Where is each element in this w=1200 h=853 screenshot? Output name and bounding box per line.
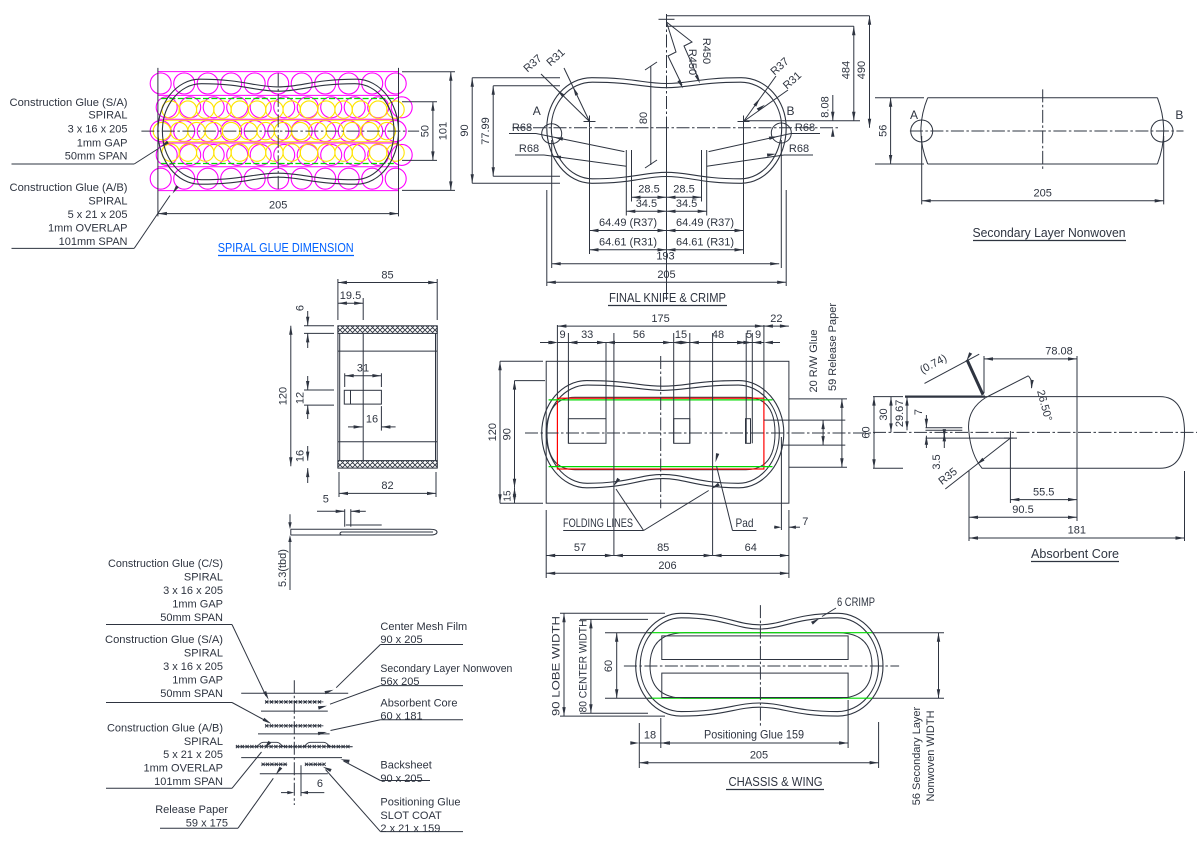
svg-text:R450: R450 bbox=[686, 49, 698, 75]
svg-text:Secondary Layer Nonwoven: Secondary Layer Nonwoven bbox=[380, 663, 512, 675]
svg-text:Nonwoven WIDTH: Nonwoven WIDTH bbox=[925, 710, 937, 801]
svg-text:R68: R68 bbox=[519, 143, 539, 155]
svg-text:Positioning Glue 159: Positioning Glue 159 bbox=[704, 728, 804, 742]
svg-text:57: 57 bbox=[574, 542, 586, 554]
svg-text:9: 9 bbox=[755, 329, 761, 341]
svg-text:6 CRIMP: 6 CRIMP bbox=[837, 595, 875, 609]
svg-text:SPIRAL GLUE DIMENSION: SPIRAL GLUE DIMENSION bbox=[218, 240, 354, 255]
svg-text:205: 205 bbox=[657, 269, 675, 281]
svg-text:193: 193 bbox=[656, 251, 674, 263]
svg-text:3 x 16 x 205: 3 x 16 x 205 bbox=[163, 661, 223, 673]
svg-text:56x 205: 56x 205 bbox=[380, 676, 419, 688]
svg-text:SLOT COAT: SLOT COAT bbox=[380, 810, 442, 822]
svg-text:55.5: 55.5 bbox=[1033, 486, 1054, 498]
svg-text:490: 490 bbox=[856, 61, 868, 79]
svg-text:34.5: 34.5 bbox=[636, 198, 657, 210]
svg-text:64.49 (R37): 64.49 (R37) bbox=[676, 217, 734, 229]
svg-text:6: 6 bbox=[317, 778, 323, 790]
svg-text:SPIRAL: SPIRAL bbox=[184, 736, 223, 748]
svg-text:101mm SPAN: 101mm SPAN bbox=[59, 236, 128, 248]
svg-text:5 x 21 x 205: 5 x 21 x 205 bbox=[68, 209, 128, 221]
svg-text:SPIRAL: SPIRAL bbox=[88, 110, 127, 122]
svg-text:34.5: 34.5 bbox=[676, 198, 697, 210]
svg-text:R68: R68 bbox=[512, 122, 532, 134]
svg-text:101mm SPAN: 101mm SPAN bbox=[154, 776, 223, 788]
svg-text:Absorbent Core: Absorbent Core bbox=[1031, 546, 1119, 561]
svg-text:80: 80 bbox=[638, 112, 650, 124]
svg-text:R68: R68 bbox=[789, 143, 809, 155]
svg-text:50mm SPAN: 50mm SPAN bbox=[160, 688, 223, 700]
svg-text:30: 30 bbox=[878, 408, 890, 420]
svg-text:22: 22 bbox=[770, 313, 782, 325]
svg-text:90 x 205: 90 x 205 bbox=[380, 773, 422, 785]
svg-text:18: 18 bbox=[644, 730, 656, 742]
svg-text:56 Secondary Layer: 56 Secondary Layer bbox=[911, 706, 923, 805]
svg-text:50mm SPAN: 50mm SPAN bbox=[160, 612, 223, 624]
svg-text:5.3(tbd): 5.3(tbd) bbox=[277, 549, 289, 587]
svg-text:101: 101 bbox=[438, 122, 450, 140]
svg-text:SPIRAL: SPIRAL bbox=[184, 648, 223, 660]
svg-text:2 x 21 x 159: 2 x 21 x 159 bbox=[380, 823, 440, 835]
svg-text:6: 6 bbox=[295, 305, 307, 311]
svg-text:60 x 181: 60 x 181 bbox=[380, 711, 422, 723]
svg-text:5: 5 bbox=[323, 494, 329, 506]
svg-text:90: 90 bbox=[459, 124, 471, 136]
svg-text:7: 7 bbox=[913, 409, 925, 415]
svg-text:80 CENTER WIDTH: 80 CENTER WIDTH bbox=[577, 619, 589, 712]
svg-text:28.5: 28.5 bbox=[673, 184, 694, 196]
svg-text:181: 181 bbox=[1068, 525, 1086, 537]
svg-text:206: 206 bbox=[658, 560, 676, 572]
svg-text:64: 64 bbox=[745, 542, 757, 554]
svg-text:56: 56 bbox=[878, 125, 890, 137]
svg-text:Center Mesh Film: Center Mesh Film bbox=[380, 621, 467, 633]
svg-text:Construction Glue (S/A): Construction Glue (S/A) bbox=[105, 634, 223, 646]
svg-text:64.61 (R31): 64.61 (R31) bbox=[676, 236, 734, 248]
svg-text:205: 205 bbox=[750, 749, 768, 761]
svg-text:Construction Glue (A/B): Construction Glue (A/B) bbox=[10, 182, 128, 194]
svg-text:82: 82 bbox=[381, 480, 393, 492]
svg-text:56: 56 bbox=[633, 329, 645, 341]
svg-text:48: 48 bbox=[712, 329, 724, 341]
svg-text:Positioning Glue: Positioning Glue bbox=[380, 797, 460, 809]
svg-text:1mm GAP: 1mm GAP bbox=[77, 138, 128, 150]
svg-text:Absorbent Core: Absorbent Core bbox=[380, 698, 457, 710]
svg-text:50mm SPAN: 50mm SPAN bbox=[65, 151, 128, 163]
svg-text:15: 15 bbox=[502, 490, 513, 502]
svg-text:60: 60 bbox=[603, 660, 615, 672]
svg-text:3 x 16 x 205: 3 x 16 x 205 bbox=[163, 585, 223, 597]
svg-text:B: B bbox=[786, 104, 794, 118]
svg-text:16: 16 bbox=[295, 450, 307, 462]
svg-text:Release Paper: Release Paper bbox=[155, 804, 228, 816]
svg-text:B: B bbox=[1175, 108, 1183, 122]
svg-text:12: 12 bbox=[295, 392, 307, 404]
svg-text:Pad: Pad bbox=[736, 516, 754, 530]
svg-text:5 x 21 x 205: 5 x 21 x 205 bbox=[163, 749, 223, 761]
svg-text:33: 33 bbox=[581, 329, 593, 341]
svg-text:SPIRAL: SPIRAL bbox=[88, 196, 127, 208]
svg-text:16: 16 bbox=[366, 414, 378, 426]
svg-text:90: 90 bbox=[501, 428, 513, 440]
svg-text:1mm OVERLAP: 1mm OVERLAP bbox=[48, 223, 127, 235]
svg-text:64.49 (R37): 64.49 (R37) bbox=[599, 217, 657, 229]
svg-text:8.08: 8.08 bbox=[820, 96, 832, 117]
svg-text:Secondary Layer Nonwoven: Secondary Layer Nonwoven bbox=[973, 225, 1126, 240]
svg-text:59 Release Paper: 59 Release Paper bbox=[827, 303, 839, 391]
svg-text:3.5: 3.5 bbox=[931, 454, 943, 469]
svg-text:1mm GAP: 1mm GAP bbox=[172, 675, 223, 687]
svg-text:77.99: 77.99 bbox=[480, 117, 492, 145]
svg-text:9: 9 bbox=[559, 329, 565, 341]
svg-text:1mm GAP: 1mm GAP bbox=[172, 599, 223, 611]
svg-text:85: 85 bbox=[381, 270, 393, 282]
svg-text:90.5: 90.5 bbox=[1012, 504, 1033, 516]
svg-text:7: 7 bbox=[802, 516, 808, 528]
svg-text:A: A bbox=[910, 108, 918, 122]
svg-text:FINAL KNIFE & CRIMP: FINAL KNIFE & CRIMP bbox=[609, 290, 726, 305]
svg-text:20 R/W Glue: 20 R/W Glue bbox=[808, 330, 820, 393]
svg-text:175: 175 bbox=[651, 313, 669, 325]
svg-text:78.08: 78.08 bbox=[1045, 346, 1073, 358]
svg-text:19.5: 19.5 bbox=[340, 290, 361, 302]
svg-text:SPIRAL: SPIRAL bbox=[184, 572, 223, 584]
svg-text:A: A bbox=[533, 104, 541, 118]
svg-text:CHASSIS & WING: CHASSIS & WING bbox=[729, 774, 823, 789]
svg-text:60: 60 bbox=[861, 426, 873, 438]
svg-text:205: 205 bbox=[1034, 188, 1052, 200]
svg-text:484: 484 bbox=[841, 61, 853, 79]
svg-text:Construction Glue (C/S): Construction Glue (C/S) bbox=[108, 558, 223, 570]
svg-text:120: 120 bbox=[278, 387, 290, 405]
svg-text:Construction Glue (A/B): Construction Glue (A/B) bbox=[107, 723, 223, 735]
svg-text:90 LOBE WIDTH: 90 LOBE WIDTH bbox=[551, 616, 563, 716]
svg-text:1mm OVERLAP: 1mm OVERLAP bbox=[144, 763, 223, 775]
svg-text:Construction Glue (S/A): Construction Glue (S/A) bbox=[10, 97, 128, 109]
svg-text:FOLDING LINES: FOLDING LINES bbox=[563, 516, 633, 530]
svg-text:Backsheet: Backsheet bbox=[380, 760, 431, 772]
svg-text:29.67: 29.67 bbox=[894, 400, 906, 428]
svg-text:85: 85 bbox=[657, 542, 669, 554]
svg-text:205: 205 bbox=[269, 200, 287, 212]
svg-text:120: 120 bbox=[487, 423, 499, 441]
svg-text:3 x 16 x 205: 3 x 16 x 205 bbox=[68, 124, 128, 136]
svg-text:R450: R450 bbox=[700, 38, 712, 64]
svg-text:R68: R68 bbox=[795, 122, 815, 134]
svg-text:28.5: 28.5 bbox=[638, 184, 659, 196]
svg-text:59 x 175: 59 x 175 bbox=[186, 817, 228, 829]
svg-text:64.61 (R31): 64.61 (R31) bbox=[599, 236, 657, 248]
svg-text:31: 31 bbox=[357, 363, 369, 375]
svg-text:5: 5 bbox=[746, 329, 752, 341]
svg-text:50: 50 bbox=[420, 125, 432, 137]
svg-text:15: 15 bbox=[675, 329, 687, 341]
